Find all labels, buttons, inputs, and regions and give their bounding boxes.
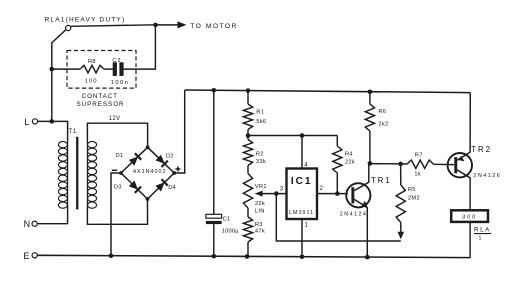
svg-text:2k2: 2k2 <box>378 121 388 127</box>
svg-text:VR1: VR1 <box>255 184 267 190</box>
svg-text:TO MOTOR: TO MOTOR <box>190 23 238 30</box>
wire: divider node to R4 top <box>248 135 337 137</box>
svg-text:LM3911: LM3911 <box>289 210 314 216</box>
wire: suppressor right side up to junction <box>154 25 156 69</box>
capacitor C1 (electrolytic) <box>206 214 222 224</box>
wire: R4 bottom to base line <box>336 173 338 194</box>
wire: TR1 emitter down to 0V rail <box>366 207 368 257</box>
wire: TR2 collector down to relay coil <box>469 177 471 210</box>
C1 labels (C1 1000u) <box>222 217 239 235</box>
relay coil labels (300, RLA/1) <box>462 214 491 241</box>
wire: TR1 collector up to node <box>368 163 370 182</box>
transformer T1 core <box>76 137 78 210</box>
bridge rectifier outline <box>121 147 174 199</box>
junction: pin1 on 0V rail <box>300 254 305 259</box>
VR1 wiper arrow <box>262 193 287 195</box>
contact suppressor dashed box <box>67 51 136 89</box>
wire: R7 to TR2 base <box>434 163 454 165</box>
svg-text:D2: D2 <box>166 154 174 160</box>
wire: collector node to R5 node <box>370 163 401 165</box>
svg-text:TR2: TR2 <box>471 145 492 154</box>
junction: collector node <box>368 161 373 166</box>
wire: IC1 pin 1 to 0V rail <box>301 219 303 257</box>
capacitor C2 <box>113 62 124 76</box>
R3 labels (R3 47k) <box>255 222 265 235</box>
wire: IC1 pin 4 to divider node <box>301 136 303 169</box>
wire: suppressor left link <box>52 68 80 70</box>
transformer T1 primary winding <box>58 140 67 208</box>
wire: rail to R1 <box>247 90 249 104</box>
TR1 labels (TR1 2N4124) <box>340 176 392 217</box>
svg-text:E: E <box>23 251 29 261</box>
wire: R1 to R2 <box>247 130 249 140</box>
svg-text:100: 100 <box>85 79 98 85</box>
resistor R4 <box>333 146 342 173</box>
potentiometer VR1 track <box>243 174 252 209</box>
terminal L <box>24 117 37 127</box>
svg-text:4X1N4002: 4X1N4002 <box>133 169 166 175</box>
svg-text:D3: D3 <box>114 185 122 191</box>
wire: R6 to collector node <box>369 131 371 163</box>
junction: TR1 emitter on 0V rail <box>365 255 370 260</box>
IC1 labels (IC1 LM3911) <box>289 176 314 216</box>
VR1 labels (VR1 22k LIN) <box>255 184 267 214</box>
svg-text:L: L <box>24 117 29 127</box>
svg-text:2N4124: 2N4124 <box>340 211 368 217</box>
transformer T1 secondary winding <box>87 140 96 208</box>
terminal E <box>23 251 37 261</box>
junction: R3 bottom on 0V rail <box>245 254 250 259</box>
R7 labels (R7 1k) <box>414 152 422 177</box>
svg-text:R7: R7 <box>415 152 423 158</box>
svg-text:R3: R3 <box>255 222 263 228</box>
svg-text:100n: 100n <box>111 80 129 86</box>
svg-text:T1: T1 <box>69 129 78 135</box>
diode D3 <box>129 181 138 190</box>
R1 labels (R1 5k6) <box>256 110 266 125</box>
wire: feedback node down and right to R5 arrow <box>276 194 401 241</box>
label plus (bridge + output) <box>175 168 180 170</box>
wire: R2 to VR1 <box>247 166 249 174</box>
wire: R5 top link <box>400 164 402 185</box>
svg-text:C2: C2 <box>112 58 121 64</box>
svg-text:RLA1(HEAVY DUTY): RLA1(HEAVY DUTY) <box>45 16 126 23</box>
R6 labels (R6 2k2) <box>378 109 388 128</box>
diode D4 <box>155 182 164 191</box>
svg-text:300: 300 <box>462 214 477 220</box>
R2 labels (R2 33k) <box>256 152 266 166</box>
relay coil RLA (300 ohm) <box>451 210 488 222</box>
svg-text:R1: R1 <box>256 110 264 116</box>
svg-text:1000µ: 1000µ <box>222 229 239 235</box>
resistor R2 <box>243 140 252 166</box>
wire: R3 to 0V rail <box>247 242 249 257</box>
wire: switch pole down to L line <box>51 42 53 121</box>
svg-text:IC1: IC1 <box>291 176 313 187</box>
junction: C1 top on rail <box>212 88 217 93</box>
junction: R1 top on rail <box>246 88 251 93</box>
wire: node to R7 <box>401 163 407 165</box>
svg-text:LIN: LIN <box>255 208 265 214</box>
wire: R4 top link <box>336 136 338 147</box>
resistor R7 <box>407 160 434 168</box>
wire: rail to R6 <box>369 91 371 104</box>
R5 labels (R5 2M2) <box>408 187 420 201</box>
wire: VR1 to R3 <box>247 208 249 217</box>
wire: N to transformer primary bottom <box>37 206 68 224</box>
junction: R1/R2 node <box>246 133 251 138</box>
wire: R5 bottom with arrow to feedback line <box>400 223 402 233</box>
svg-text:33k: 33k <box>256 159 266 165</box>
svg-text:CONTACT: CONTACT <box>82 93 118 100</box>
junction: - lead on 0V rail <box>109 253 114 258</box>
svg-text:22k: 22k <box>345 160 355 166</box>
svg-text:2M2: 2M2 <box>408 196 420 202</box>
R8 labels (R8 100) <box>85 59 98 85</box>
svg-text:5k6: 5k6 <box>256 119 266 125</box>
junction: C1 bottom on 0V rail <box>212 254 217 259</box>
diode D2 <box>155 155 164 164</box>
wire: R8 to C2 <box>104 68 113 70</box>
wire: secondary bottom to bridge AC bottom <box>87 199 147 224</box>
resistor R3 <box>243 217 252 242</box>
svg-text:N: N <box>24 219 31 229</box>
wire: secondary top to bridge AC top (12V node) <box>87 123 147 147</box>
wire: L to transformer primary top <box>37 121 67 140</box>
svg-text:47k: 47k <box>255 229 265 235</box>
resistor R5 <box>396 185 405 223</box>
svg-text:RLA: RLA <box>474 226 491 233</box>
junction: motor line / suppressor branch <box>153 23 158 28</box>
svg-text:1k: 1k <box>414 172 421 178</box>
resistor R1 <box>243 104 252 130</box>
wire: top rail down to C1 <box>213 90 215 215</box>
wire: top supply rail <box>185 90 471 93</box>
op-amp IC1 (LM3911) box <box>287 169 318 220</box>
svg-text:D4: D4 <box>168 185 176 191</box>
svg-text:R4: R4 <box>345 152 353 158</box>
wire: arrow to motor <box>156 24 179 26</box>
junction: L wire / relay pole <box>50 119 55 124</box>
relay contact RLA1 (switch blade and contact) <box>52 25 71 42</box>
wire: bridge + to top rail left end <box>174 90 185 173</box>
C2 labels (C2 100n) <box>111 58 129 86</box>
R4 labels (R4 22k) <box>345 152 355 166</box>
svg-text:2N4126: 2N4126 <box>473 173 501 179</box>
label minus (bridge - output) <box>112 169 117 171</box>
transistor TR1 body <box>346 182 370 208</box>
svg-text:R2: R2 <box>256 152 264 158</box>
svg-text:SUPRESSOR: SUPRESSOR <box>76 101 124 108</box>
junction: R4 / TR1 base <box>335 191 340 196</box>
junction: wiper / pin3 / feedback node <box>274 191 279 196</box>
svg-text:D1: D1 <box>116 153 124 159</box>
svg-text:12V: 12V <box>109 116 121 122</box>
svg-text:1: 1 <box>479 236 482 242</box>
junction: R5 top node <box>398 162 403 167</box>
wire: C1 to 0V rail <box>213 224 215 256</box>
svg-text:R5: R5 <box>408 187 416 193</box>
TR2 labels (TR2 2N4126) <box>471 145 501 179</box>
wire: C2 to right riser <box>124 68 156 70</box>
transistor TR2 body <box>448 152 472 178</box>
wire: contact to motor junction <box>71 25 156 27</box>
diode D1 <box>129 157 138 166</box>
svg-text:C1: C1 <box>223 217 231 223</box>
svg-text:R8: R8 <box>88 59 96 65</box>
resistor R8 <box>80 65 104 73</box>
label CONTACT SUPRESSOR <box>76 93 124 108</box>
junction: pole / suppressor left <box>50 67 55 72</box>
svg-text:R6: R6 <box>378 109 386 115</box>
svg-text:22k: 22k <box>255 201 265 207</box>
wire: 0V rail from E to right side <box>37 255 470 257</box>
wire: right side riser (relay coil to 0V rail) <box>469 222 471 258</box>
svg-text:TR1: TR1 <box>371 176 392 185</box>
resistor R6 <box>365 104 374 131</box>
wire: bridge - down to 0V rail <box>111 173 121 256</box>
terminal N <box>24 219 38 229</box>
wire: TR2 emitter up to top rail <box>469 93 471 153</box>
junction: IC1 pin4 tap <box>300 133 305 138</box>
wire: IC1 pin 2 to TR1 base <box>317 193 348 195</box>
junction: R6 top on rail <box>368 90 373 95</box>
